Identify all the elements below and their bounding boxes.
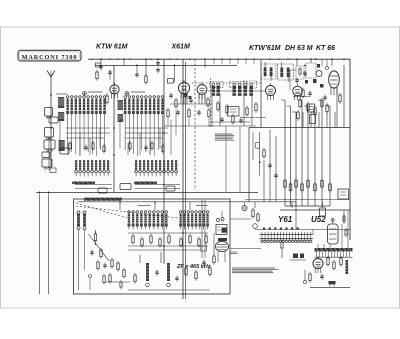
svg-text:KTW’61M: KTW’61M — [249, 45, 281, 52]
svg-text:KTW 61M: KTW 61M — [96, 44, 128, 51]
svg-text:MARCONI 7300: MARCONI 7300 — [22, 54, 78, 61]
svg-text:Y61: Y61 — [278, 215, 293, 224]
svg-text:DH 63 M: DH 63 M — [285, 45, 313, 52]
svg-text:U52: U52 — [311, 215, 326, 224]
svg-text:ZF = 465 kHz: ZF = 465 kHz — [176, 264, 211, 270]
svg-text:X61M: X61M — [171, 44, 190, 51]
svg-text:KT 66: KT 66 — [316, 45, 335, 52]
